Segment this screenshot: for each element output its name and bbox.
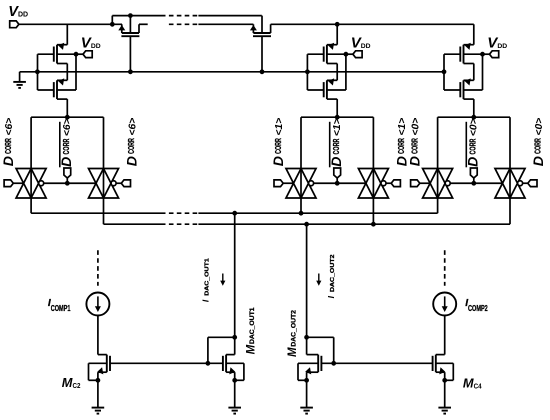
wire TG0R signal through — [509, 169, 511, 199]
label D_CORR<1> right — [393, 118, 409, 166]
node bias junction M-top-2 gate — [260, 69, 265, 74]
wire bulk-rail riser — [111, 16, 113, 25]
wire MP1 bulk leads — [57, 53, 76, 55]
arrow I_DAC_OUT1 direction — [222, 274, 224, 282]
node M_DAC_OUT2 drain junction — [304, 335, 309, 340]
wire bus1 right solid — [198, 212, 437, 214]
label D_CORR<6>-bar middle — [58, 118, 74, 166]
wire M_C2 source stub — [98, 371, 107, 373]
wire I_COMP1 dashed top — [97, 250, 99, 285]
wire M_C2 bulk loop — [89, 362, 107, 364]
wire TG1R to bus2 — [372, 198, 374, 224]
wire M-top-2 bulk riser — [261, 16, 263, 33]
wire bulk rail top solid — [112, 15, 165, 17]
node M_C4 source junction — [442, 378, 447, 383]
transmission gate TG1R — [358, 169, 388, 199]
wire TG1 middle link — [314, 182, 366, 184]
node M_C2 source junction — [96, 378, 101, 383]
wire MP2a source riser — [336, 24, 338, 44]
node current rail junction pair2 — [335, 22, 340, 27]
port D_CORR<1> right — [391, 180, 400, 187]
transmission gate TG0L — [423, 169, 453, 199]
label D_CORR<0> right — [530, 118, 546, 166]
wire M_C4 bulk loop — [436, 362, 454, 364]
node bus1 junction IDAC_OUT1 — [232, 211, 237, 216]
wire TG6L to bus1 — [30, 198, 32, 213]
ground (M_C2) — [92, 408, 105, 414]
wire bus2 dashed segment — [169, 223, 198, 225]
wire TG row 0 top rail — [438, 116, 510, 118]
wire MP1 cascode middle — [66, 64, 68, 81]
node TG1 middle junction — [335, 181, 340, 186]
wire M-top-1 drain stub right — [139, 23, 148, 25]
label D_CORR<1> left — [270, 118, 286, 166]
label M_DAC_OUT1 — [245, 307, 257, 354]
transistor MP2b (lower cascode PMOS) — [324, 80, 327, 99]
node TG row 0 top junction — [471, 115, 476, 120]
wire MP1 gate leads — [38, 53, 55, 55]
transistor MP1a (upper cascode PMOS) — [54, 45, 57, 64]
wire TG6R top drop — [103, 117, 105, 168]
wire M-top-1 gate riser — [129, 36, 131, 72]
wire TG row 6 top rail — [31, 116, 103, 118]
label D_CORR<0>-bar middle — [465, 118, 481, 166]
wire MP3 cascode middle — [473, 64, 475, 81]
wire M_DAC_OUT1 ground stem — [234, 380, 236, 407]
wire M_DAC_OUT1 bulk loop — [226, 362, 244, 364]
arrow I_DAC_OUT2 direction — [318, 274, 320, 282]
wire TG0R top drop — [509, 117, 511, 168]
wire TG0R to bus2 — [509, 198, 511, 224]
port D_CORR<6>-bar middle — [64, 168, 71, 178]
wire TG0 middle link — [450, 182, 502, 184]
wire M_DAC_OUT2 ground stem — [306, 380, 308, 407]
wire bus1 dashed segment — [169, 212, 198, 214]
port D_CORR<6> left — [4, 180, 13, 187]
wire TG1R top drop — [372, 117, 374, 168]
ground (M_DAC_OUT1) — [228, 408, 241, 414]
wire TG row 1 top rail — [301, 116, 373, 118]
current source I_COMP2 — [433, 293, 456, 316]
wire MP2 bulk leads — [327, 53, 346, 55]
node VDD bulk junction pair1 — [74, 52, 79, 57]
wire TG0L top drop — [437, 117, 439, 168]
transistor M-top-2 (PMOS mirror) — [253, 33, 271, 36]
node bias junction pair3 gates — [442, 69, 447, 74]
node bias junction pair1 gates — [35, 69, 40, 74]
wire TG1L signal through — [300, 169, 302, 199]
transistor M_DAC_OUT1 (NMOS) — [223, 355, 226, 373]
wire MP3b drain riser — [473, 99, 475, 117]
wire M_DAC_OUT1 source stub — [226, 371, 235, 373]
wire I_COMP2 to M_C4 drain — [444, 316, 446, 355]
transistor M-top-1 (PMOS mirror) — [121, 33, 139, 36]
node TG6 middle junction — [65, 181, 70, 186]
wire mirror chain solid to M-top-2 — [198, 23, 253, 25]
arrow M_DAC_OUT1 source (NMOS) — [229, 367, 236, 375]
wire M_C4 source stub — [436, 371, 445, 373]
node TG0 middle junction — [471, 181, 476, 186]
wire bulk rail dashed segment — [169, 15, 198, 17]
wire bus2 left solid — [104, 223, 166, 225]
port D_CORR<0> right — [528, 180, 537, 187]
port VDD pair1 — [76, 53, 83, 55]
wire MP1b drain riser — [66, 99, 68, 117]
port D_CORR<0>-bar middle — [470, 168, 477, 178]
wire M_DAC_OUT2 source stub — [307, 371, 319, 373]
node TG row 6 top junction — [65, 115, 70, 120]
arrow M_DAC_OUT2 source (NMOS) — [305, 367, 312, 375]
wire MP1a source riser — [66, 24, 68, 44]
node bus1 junction TG1L — [299, 211, 304, 216]
wire TG6R signal through — [103, 169, 105, 199]
label I_DAC_OUT2 — [326, 254, 336, 298]
transistor M_C4 (NMOS) — [433, 355, 436, 373]
port D_CORR<0> left — [411, 180, 420, 187]
arrow M_C4 source (NMOS) — [439, 367, 446, 375]
wire I_COMP2 dashed top — [444, 250, 446, 285]
node bus2 junction TG1R — [371, 222, 376, 227]
wire M-top-1 bulk riser — [129, 16, 131, 33]
wire M_C2 ground stem — [97, 380, 99, 407]
node gate-diode junction left — [206, 361, 211, 366]
node bias junction M-top-1 gate — [128, 69, 133, 74]
node TG row 1 top junction — [335, 115, 340, 120]
wire TG0L signal through — [437, 169, 439, 199]
port D_CORR<1>-bar middle — [334, 168, 341, 178]
transistor M_DAC_OUT2 (NMOS) — [318, 355, 321, 373]
node bus2 junction IDAC_OUT2 — [304, 222, 309, 227]
transistor MP3a (upper cascode PMOS) — [460, 45, 463, 64]
label D_CORR<1>-bar middle — [328, 118, 344, 166]
label I_DAC_OUT1 — [201, 257, 211, 302]
port VDD pair2 — [346, 53, 353, 55]
transistor MP2a (upper cascode PMOS) — [324, 45, 327, 64]
wire bulk rail top right solid — [198, 15, 261, 17]
node M_DAC_OUT2 source junction — [304, 378, 309, 383]
port D_CORR<1> left — [274, 180, 283, 187]
current source I_COMP1 — [86, 293, 109, 316]
transistor MP3b (lower cascode PMOS) — [460, 80, 463, 99]
wire MP3 gate leads — [444, 53, 461, 55]
arrow M_C2 source (NMOS) — [97, 367, 104, 375]
transmission gate TG6R — [89, 169, 119, 199]
wire M_DAC_OUT2 bulk loop — [298, 362, 318, 364]
ground (bias rail) — [13, 82, 26, 88]
wire M_DAC_OUT2 diode link — [307, 336, 334, 338]
wire I_DAC_OUT1 line — [234, 213, 236, 337]
port D_CORR<6> right — [121, 180, 130, 187]
node VDD bulk junction pair2 — [344, 52, 349, 57]
wire mirror gate link left — [110, 362, 224, 364]
transmission gate TG0R — [495, 169, 525, 199]
wire current rail (M-top-2 drain to cascodes) — [271, 23, 474, 25]
label D_CORR<6> right — [123, 118, 139, 166]
node VDD junction at bulk-rail riser — [110, 22, 115, 27]
wire MP2b drain riser — [336, 99, 338, 117]
transistor MP1b (lower cascode PMOS) — [54, 80, 57, 99]
wire MP3 bulk leads — [464, 53, 483, 55]
wire MP2 cascode middle — [336, 64, 338, 81]
transmission gate TG1L — [286, 169, 316, 199]
label M_DAC_OUT2 — [287, 310, 299, 357]
wire TG6L top drop — [30, 117, 32, 168]
wire bus2 right solid — [198, 223, 510, 225]
wire I_DAC_OUT2 line — [306, 224, 308, 337]
node VDD bulk junction pair3 — [480, 52, 485, 57]
wire TG1R signal through — [372, 169, 374, 199]
ground (M_C4) — [438, 408, 451, 414]
node bias junction pair2 gates — [305, 69, 310, 74]
wire mirror gate link right — [321, 362, 433, 364]
wire M-top-2 gate riser — [261, 36, 263, 72]
power port VDD (top left) — [10, 21, 19, 28]
port VDD pair3 — [483, 53, 490, 55]
wire MP3a source riser — [473, 24, 475, 44]
wire TG1L top drop — [300, 117, 302, 168]
node bulk rail junction M-top-1 — [128, 13, 133, 18]
label D_CORR<0> left — [407, 118, 423, 166]
wire bias rail — [20, 71, 444, 73]
node M_DAC_OUT1 drain junction — [232, 335, 237, 340]
wire TG6L signal through — [30, 169, 32, 199]
wire M_DAC_OUT2 drain stub — [307, 354, 319, 356]
wire M_DAC_OUT1 diode link — [208, 336, 235, 338]
wire TG6R to bus2 — [103, 198, 105, 224]
ground (M_DAC_OUT2) — [300, 408, 313, 414]
wire TG6 middle link — [44, 182, 96, 184]
wire bus1 left solid — [31, 212, 165, 214]
wire TG0L to bus1 — [437, 198, 439, 213]
wire mirror chain dashed segment — [169, 23, 198, 25]
node M_DAC_OUT1 source junction — [232, 378, 237, 383]
wire M_DAC_OUT1 drain stub — [226, 354, 235, 356]
transmission gate TG6L — [16, 169, 46, 199]
wire MP2 gate leads — [307, 53, 324, 55]
wire M_C4 ground stem — [444, 380, 446, 407]
wire I_COMP1 to M_C2 drain — [97, 316, 99, 355]
transistor M_C2 (NMOS) — [107, 355, 110, 373]
label D_CORR<6> left — [0, 118, 16, 166]
wire VDD horizontal (port to mirror) — [19, 23, 122, 25]
wire TG1L to bus1 — [300, 198, 302, 213]
node gate-diode junction right — [331, 361, 336, 366]
